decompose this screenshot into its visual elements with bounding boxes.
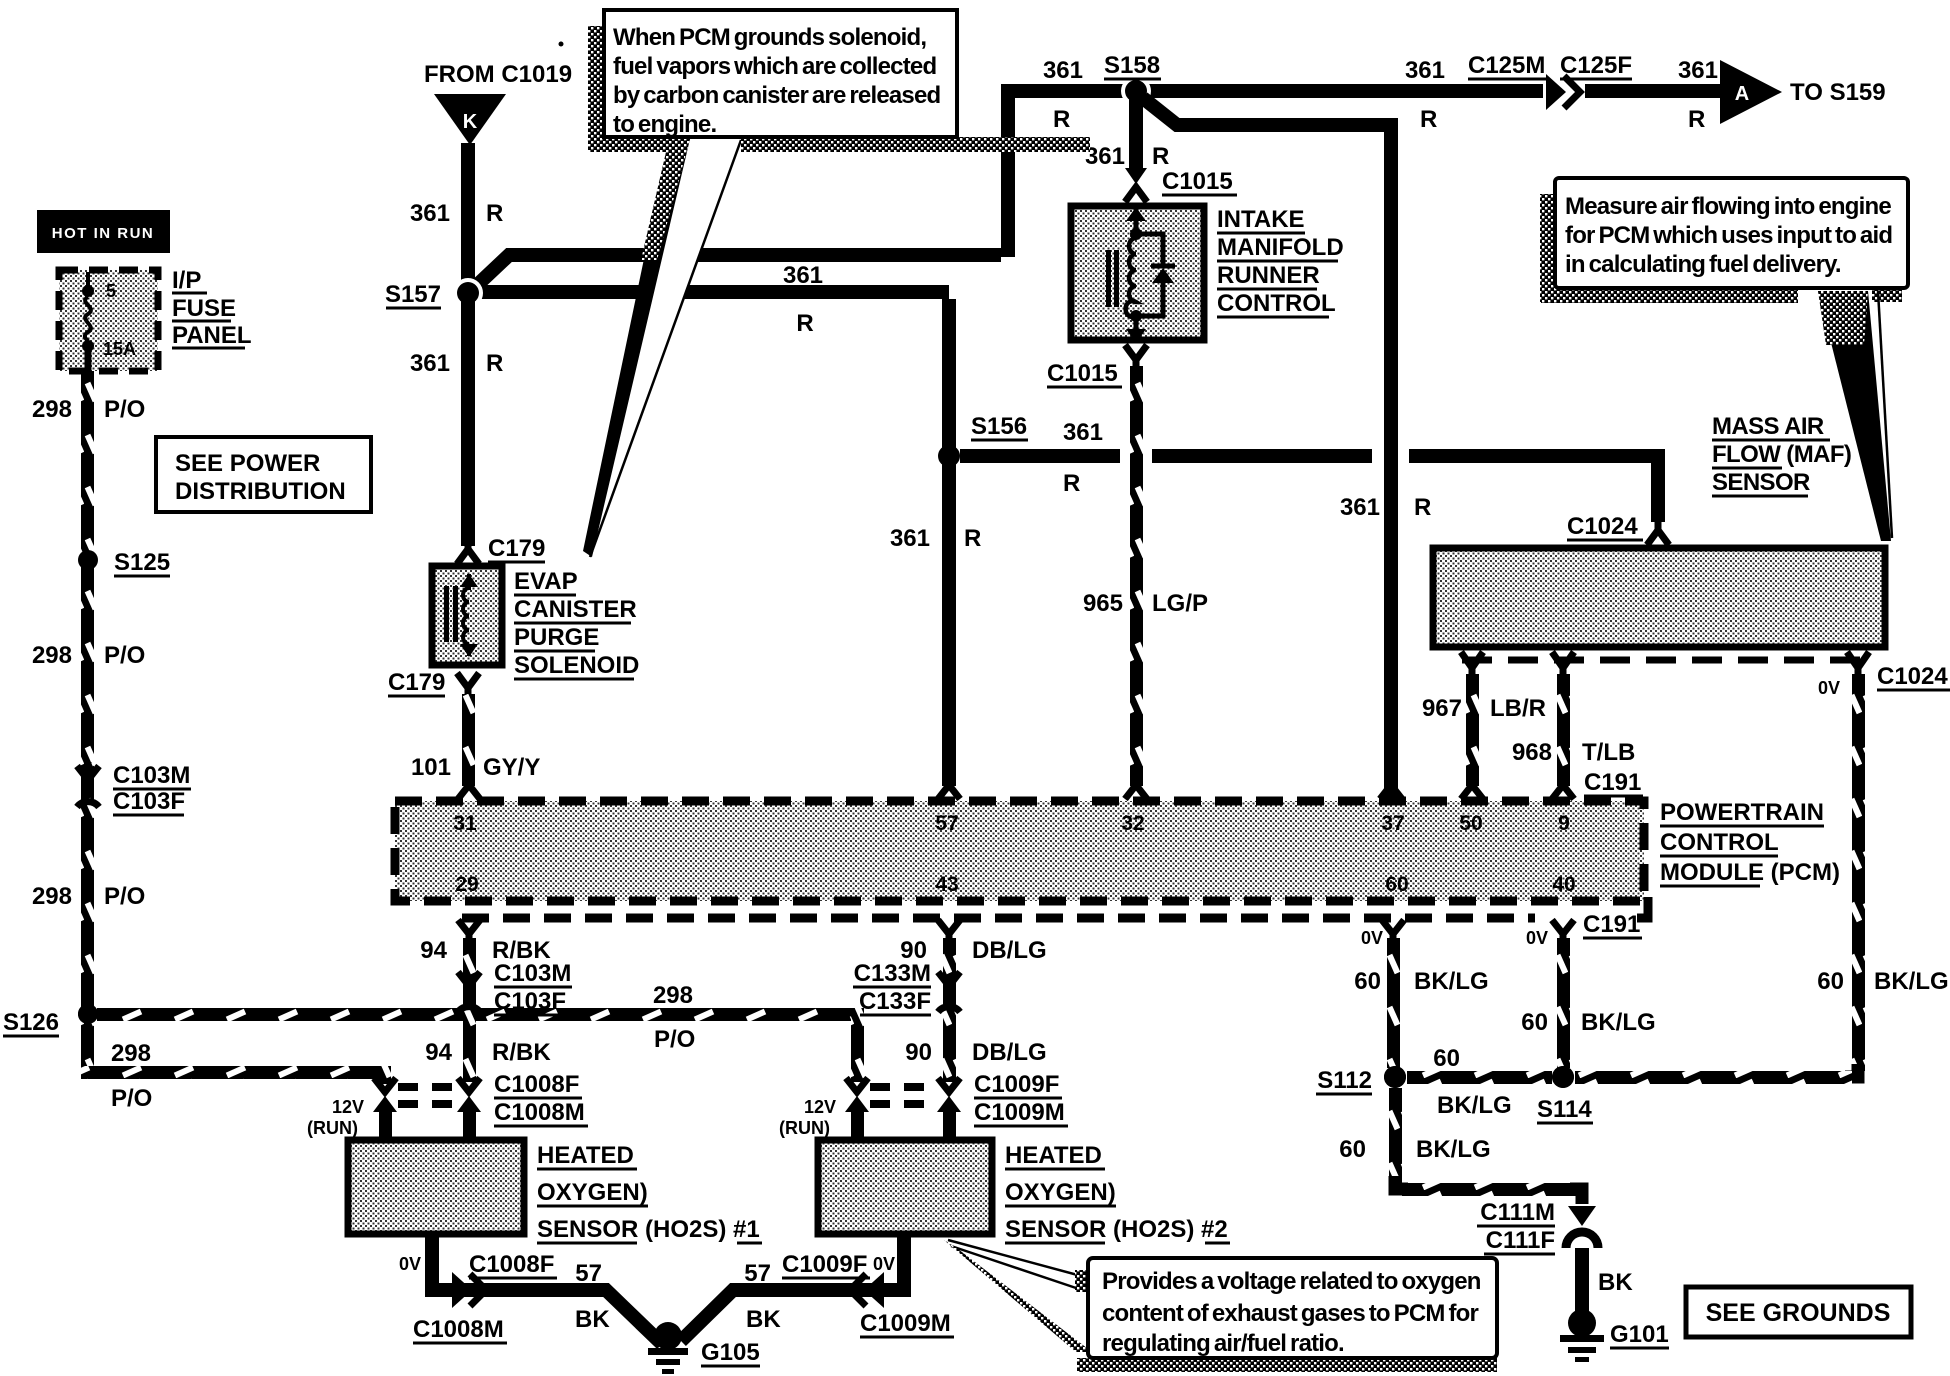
- svg-text:90: 90: [905, 1039, 932, 1066]
- svg-text:TO S159: TO S159: [1790, 79, 1886, 106]
- svg-text:40: 40: [1552, 873, 1575, 896]
- svg-text:R: R: [1420, 106, 1437, 133]
- node S112 dot redraw: [1384, 1066, 1406, 1088]
- label EVAP CANISTER PURGE SOLENOID: [514, 568, 639, 679]
- wire 101 GY/Y: [462, 694, 475, 786]
- svg-text:I/P: I/P: [172, 267, 201, 294]
- wire S114 to right riser: [1575, 1071, 1852, 1084]
- svg-text:C179: C179: [388, 669, 445, 696]
- svg-text:C1008M: C1008M: [494, 1099, 585, 1126]
- broken connector dashes HO2S2: [870, 1083, 936, 1091]
- svg-text:361: 361: [1085, 143, 1125, 170]
- svg-text:CONTROL: CONTROL: [1660, 829, 1779, 856]
- svg-text:361: 361: [1678, 57, 1718, 84]
- svg-text:361: 361: [1405, 57, 1445, 84]
- svg-text:BK/LG: BK/LG: [1414, 968, 1489, 995]
- ground G105: [648, 1322, 760, 1374]
- svg-text:A: A: [1735, 83, 1749, 105]
- svg-text:C103F: C103F: [113, 788, 185, 815]
- svg-text:C133F: C133F: [859, 988, 931, 1015]
- wire S156 horizontal 361 R to C1024: [960, 449, 1120, 463]
- connector fork at PCM pin 50: [1461, 785, 1483, 799]
- svg-text:60: 60: [1385, 873, 1408, 896]
- svg-text:R: R: [1414, 494, 1431, 521]
- svg-text:PURGE: PURGE: [514, 624, 599, 651]
- connector fork 0V below PCM pin 60: [1361, 920, 1404, 948]
- svg-text:32: 32: [1121, 812, 1144, 835]
- svg-text:15A: 15A: [103, 339, 136, 359]
- node S158: [1104, 52, 1161, 106]
- svg-text:C103M: C103M: [494, 960, 571, 987]
- svg-text:DB/LG: DB/LG: [972, 937, 1047, 964]
- svg-text:43: 43: [935, 873, 958, 896]
- svg-text:(RUN): (RUN): [307, 1118, 358, 1138]
- svg-text:967: 967: [1422, 695, 1462, 722]
- svg-text:60: 60: [1433, 1045, 1460, 1072]
- connector C1008F C1008M broken pair pin right: [457, 1071, 588, 1138]
- connector fork at PCM pin 9: [1552, 785, 1574, 799]
- svg-text:R/BK: R/BK: [492, 1039, 551, 1066]
- PCM bottom connector dashed line: [462, 897, 1648, 918]
- wire 60 BK/LG right tall: [1852, 674, 1865, 1071]
- svg-text:60: 60: [1817, 968, 1844, 995]
- svg-text:C1008F: C1008F: [469, 1251, 554, 1278]
- arrow K from C1019: [434, 94, 506, 145]
- node S114: [1537, 1066, 1593, 1123]
- svg-text:C191: C191: [1584, 769, 1641, 796]
- svg-text:S125: S125: [114, 549, 170, 576]
- svg-text:S126: S126: [3, 1009, 59, 1036]
- svg-text:PANEL: PANEL: [172, 322, 252, 349]
- wire 968 T/LB: [1557, 674, 1570, 786]
- svg-text:C1009M: C1009M: [974, 1099, 1065, 1126]
- callout: Measure air flowing: [1540, 178, 1908, 303]
- svg-text:for PCM which uses input to ai: for PCM which uses input to aid: [1565, 222, 1892, 249]
- connector C191 label upper: [1584, 769, 1643, 796]
- connector C1009M C1009F inline: [782, 1251, 954, 1337]
- node S157: [385, 278, 483, 308]
- svg-text:SOLENOID: SOLENOID: [514, 652, 639, 679]
- svg-text:regulating air/fuel ratio.: regulating air/fuel ratio.: [1102, 1330, 1344, 1357]
- wire S158 run to C125: [1008, 84, 1543, 98]
- SEE POWER DISTRIBUTION box: [156, 437, 371, 512]
- wire 94 R/BK: [463, 938, 476, 1082]
- svg-text:C103F: C103F: [494, 988, 566, 1015]
- svg-text:361: 361: [783, 262, 823, 289]
- wire HO2S2 0V to G105: [681, 1237, 911, 1341]
- svg-text:by carbon canister are release: by carbon canister are released: [613, 82, 941, 109]
- svg-text:RUNNER: RUNNER: [1217, 262, 1320, 289]
- svg-text:in calculating fuel delivery.: in calculating fuel delivery.: [1565, 251, 1841, 278]
- label MASS AIR FLOW (MAF) SENSOR: [1712, 413, 1851, 496]
- label HEATED OXYGEN SENSOR HO2S 1: [537, 1142, 762, 1243]
- svg-text:SEE POWER: SEE POWER: [175, 450, 320, 477]
- connector C103M C103F on 94 wire: [458, 960, 572, 1015]
- wire 361 R S157 to C179: [461, 299, 475, 546]
- svg-text:968: 968: [1512, 739, 1552, 766]
- svg-text:R: R: [796, 310, 813, 337]
- svg-text:60: 60: [1521, 1009, 1548, 1036]
- svg-text:POWERTRAIN: POWERTRAIN: [1660, 799, 1824, 826]
- svg-text:361: 361: [1043, 57, 1083, 84]
- connector C1024 top: [1567, 513, 1669, 545]
- svg-text:G101: G101: [1610, 1321, 1669, 1348]
- connector fork below PCM pin 43: [938, 920, 960, 940]
- svg-text:C1009F: C1009F: [782, 1251, 867, 1278]
- connector fork at PCM pin 31: [458, 785, 480, 799]
- svg-text:R: R: [1152, 143, 1169, 170]
- svg-text:C179: C179: [488, 535, 545, 562]
- label POWERTRAIN CONTROL MODULE (PCM): [1660, 799, 1840, 886]
- svg-text:298: 298: [32, 642, 72, 669]
- svg-text:57: 57: [575, 1260, 602, 1287]
- svg-text:R: R: [1053, 106, 1070, 133]
- svg-text:FUSE: FUSE: [172, 295, 236, 322]
- svg-text:94: 94: [425, 1039, 452, 1066]
- svg-text:94: 94: [420, 937, 447, 964]
- svg-text:57: 57: [935, 812, 958, 835]
- wire S157 lower run to S156: [478, 285, 949, 299]
- connector C1015 top: [1125, 168, 1237, 202]
- connector C133M C133F: [853, 960, 960, 1015]
- svg-text:50: 50: [1459, 812, 1482, 835]
- EVAP canister purge solenoid: [432, 566, 502, 665]
- svg-text:FROM C1019: FROM C1019: [424, 61, 572, 88]
- svg-text:BK: BK: [575, 1306, 610, 1333]
- node S114 dot redraw: [1552, 1066, 1574, 1088]
- svg-text:SEE GROUNDS: SEE GROUNDS: [1706, 1299, 1891, 1327]
- heated oxygen sensor HO2S 1 box: [348, 1140, 524, 1234]
- svg-text:R: R: [486, 350, 503, 377]
- svg-text:P/O: P/O: [104, 883, 145, 910]
- svg-text:298: 298: [111, 1040, 151, 1067]
- connector fork 0V below PCM pin 40 C191: [1526, 920, 1574, 948]
- svg-text:S112: S112: [1317, 1067, 1372, 1094]
- wire 298 P/O left vertical: [81, 371, 94, 1018]
- svg-text:BK/LG: BK/LG: [1581, 1009, 1656, 1036]
- node S125: [78, 549, 170, 576]
- node S126 dot redraw: [78, 1004, 98, 1024]
- svg-text:965: 965: [1083, 590, 1123, 617]
- svg-text:R: R: [1688, 106, 1705, 133]
- svg-text:101: 101: [411, 754, 451, 781]
- svg-text:R: R: [486, 200, 503, 227]
- svg-text:SENSOR (HO2S) #1: SENSOR (HO2S) #1: [537, 1216, 760, 1243]
- svg-text:G105: G105: [701, 1339, 760, 1366]
- svg-text:OXYGEN): OXYGEN): [537, 1179, 648, 1206]
- svg-text:P/O: P/O: [104, 642, 145, 669]
- svg-text:BK: BK: [746, 1306, 781, 1333]
- wire 965 LG/P: [1130, 366, 1143, 786]
- svg-text:57: 57: [744, 1260, 771, 1287]
- svg-text:0V: 0V: [873, 1254, 895, 1274]
- svg-text:29: 29: [455, 873, 478, 896]
- connector fork at PCM pin 37: [1380, 785, 1402, 799]
- stray dot: [559, 42, 564, 47]
- svg-text:C125M: C125M: [1468, 52, 1545, 79]
- connector fork 967 below MAF: [1461, 652, 1483, 676]
- wire S126 to HO2S2 12V: [97, 1008, 851, 1021]
- svg-text:BK/LG: BK/LG: [1416, 1136, 1491, 1163]
- wire HO2S1 0V to G105: [399, 1237, 662, 1344]
- connector C111M C111F: [1477, 1199, 1598, 1254]
- svg-text:C1009M: C1009M: [860, 1310, 951, 1337]
- svg-text:MODULE (PCM): MODULE (PCM): [1660, 859, 1840, 886]
- connector 12V RUN pin left HO2S2: [779, 1078, 869, 1138]
- svg-text:S158: S158: [1104, 52, 1160, 79]
- svg-text:HOT IN RUN: HOT IN RUN: [52, 225, 155, 242]
- powertrain control module PCM box: [395, 801, 1644, 901]
- svg-text:C111M: C111M: [1480, 1199, 1555, 1226]
- svg-text:EVAP: EVAP: [514, 568, 578, 595]
- svg-text:298: 298: [32, 396, 72, 423]
- svg-text:LG/P: LG/P: [1152, 590, 1208, 617]
- connector C103M C103F left: [77, 762, 191, 815]
- arrow A to S159: [1720, 60, 1782, 124]
- svg-text:SENSOR: SENSOR: [1712, 469, 1810, 496]
- wire S158 down-right to PCM pin 37: [1143, 98, 1384, 125]
- connector 12V RUN pin left HO2S1: [307, 1078, 397, 1138]
- wire BK to G101: [1575, 1248, 1633, 1320]
- svg-text:to engine.: to engine.: [613, 111, 716, 138]
- svg-text:BK: BK: [1598, 1269, 1633, 1296]
- svg-text:K: K: [463, 111, 478, 133]
- wire S158 down to C1015: [1129, 98, 1143, 170]
- svg-text:361: 361: [1063, 419, 1103, 446]
- svg-text:9: 9: [1558, 812, 1570, 835]
- svg-text:BK/LG: BK/LG: [1437, 1092, 1512, 1119]
- svg-text:0V: 0V: [399, 1254, 421, 1274]
- svg-text:DISTRIBUTION: DISTRIBUTION: [175, 478, 346, 505]
- connector C191 label lower: [1583, 911, 1642, 938]
- connector C179 bottom: [388, 669, 479, 696]
- fuse panel box I/P: [59, 270, 158, 371]
- callout pointer wedge to MAF: [1818, 291, 1892, 541]
- fuse F5 15A: [82, 272, 136, 371]
- connector C1024 dashed face below MAF: [1462, 657, 1862, 664]
- connector fork 0V C1024 right below MAF: [1818, 652, 1950, 698]
- svg-text:12V: 12V: [332, 1097, 364, 1117]
- svg-text:12V: 12V: [804, 1097, 836, 1117]
- svg-text:P/O: P/O: [104, 396, 145, 423]
- svg-text:361: 361: [1340, 494, 1380, 521]
- svg-text:INTAKE: INTAKE: [1217, 206, 1305, 233]
- svg-text:HEATED: HEATED: [1005, 1142, 1102, 1169]
- svg-text:298: 298: [653, 982, 693, 1009]
- wire S157 to S158 upper run: [474, 255, 1001, 288]
- callout: When PCM grounds solenoid (drawn over wires): [583, 10, 1090, 557]
- svg-text:FLOW (MAF): FLOW (MAF): [1712, 441, 1851, 468]
- svg-text:37: 37: [1381, 812, 1404, 835]
- node S126: [3, 1004, 98, 1036]
- svg-text:R: R: [964, 525, 981, 552]
- svg-text:P/O: P/O: [654, 1026, 695, 1053]
- svg-text:60: 60: [1339, 1136, 1366, 1163]
- wire S112 down to C111: [1339, 1088, 1582, 1204]
- wire 60 BK/LG to S114: [1557, 938, 1570, 1068]
- svg-text:T/LB: T/LB: [1582, 739, 1635, 766]
- connector C1015 bottom: [1047, 345, 1147, 387]
- svg-text:OXYGEN): OXYGEN): [1005, 1179, 1116, 1206]
- connector fork below PCM pin 29: [458, 920, 480, 940]
- wire S126 branch to HO2S1 12V: [81, 1020, 94, 1072]
- svg-text:361: 361: [890, 525, 930, 552]
- svg-text:C1009F: C1009F: [974, 1071, 1059, 1098]
- svg-text:C111F: C111F: [1486, 1227, 1555, 1254]
- wire 60 BK/LG to S112: [1387, 938, 1400, 1068]
- label INTAKE MANIFOLD RUNNER CONTROL: [1217, 206, 1344, 317]
- svg-text:S114: S114: [1537, 1096, 1592, 1123]
- svg-text:S156: S156: [971, 413, 1027, 440]
- svg-text:GY/Y: GY/Y: [483, 754, 540, 781]
- label I/P FUSE PANEL: [172, 267, 252, 349]
- svg-text:0V: 0V: [1361, 928, 1383, 948]
- svg-text:S157: S157: [385, 281, 441, 308]
- svg-text:31: 31: [453, 812, 477, 835]
- label HEATED OXYGEN SENSOR HO2S 2: [1005, 1142, 1230, 1243]
- svg-text:5: 5: [106, 281, 116, 301]
- svg-text:298: 298: [32, 883, 72, 910]
- callout: Provides a voltage: [944, 1240, 1497, 1372]
- connector fork 968 below MAF: [1552, 652, 1574, 676]
- connector C125M C125F: [1468, 52, 1632, 110]
- svg-text:C125F: C125F: [1560, 52, 1632, 79]
- svg-text:Measure air flowing into engin: Measure air flowing into engine: [1565, 193, 1891, 220]
- svg-text:CANISTER: CANISTER: [514, 596, 637, 623]
- SEE GROUNDS box: [1686, 1287, 1911, 1337]
- svg-text:content of exhaust gases to PC: content of exhaust gases to PCM for: [1102, 1300, 1479, 1327]
- connector C179 top: [457, 535, 545, 564]
- wire 361 R down to S157: [461, 143, 475, 284]
- svg-text:DB/LG: DB/LG: [972, 1039, 1047, 1066]
- svg-text:LB/R: LB/R: [1490, 695, 1546, 722]
- svg-text:0V: 0V: [1818, 678, 1840, 698]
- svg-text:C1015: C1015: [1162, 168, 1233, 195]
- svg-text:P/O: P/O: [111, 1085, 152, 1112]
- intake manifold runner control box: [1071, 206, 1204, 343]
- svg-text:MANIFOLD: MANIFOLD: [1217, 234, 1344, 261]
- svg-text:When PCM grounds solenoid,: When PCM grounds solenoid,: [613, 24, 926, 51]
- svg-text:BK/LG: BK/LG: [1874, 968, 1949, 995]
- wire 967 LB/R: [1466, 674, 1479, 786]
- svg-text:fuel vapors which are collecte: fuel vapors which are collected: [613, 53, 936, 80]
- svg-text:R: R: [1063, 470, 1080, 497]
- node S156: [938, 413, 1028, 467]
- svg-text:CONTROL: CONTROL: [1217, 290, 1336, 317]
- node S112: [1316, 1066, 1406, 1094]
- svg-text:0V: 0V: [1526, 928, 1548, 948]
- svg-text:HEATED: HEATED: [537, 1142, 634, 1169]
- svg-text:361: 361: [410, 350, 450, 377]
- svg-text:C133M: C133M: [854, 960, 931, 987]
- connector C1009F C1009M broken pair pin right: [937, 1071, 1068, 1138]
- wire S156 vertical to PCM pin 57: [942, 299, 956, 786]
- svg-text:C191: C191: [1583, 911, 1640, 938]
- wire S112 to S114 60 BK/LG: [1407, 1071, 1552, 1084]
- svg-text:C1024: C1024: [1877, 663, 1948, 690]
- connector fork at PCM pin 57: [938, 785, 960, 799]
- svg-text:C1015: C1015: [1047, 360, 1118, 387]
- svg-text:C103M: C103M: [113, 762, 190, 789]
- heated oxygen sensor HO2S 2 box: [818, 1140, 992, 1234]
- wire 90 DB/LG: [943, 938, 956, 1082]
- connector C1008F C1008M inline: [413, 1251, 557, 1343]
- svg-text:Provides a voltage related to: Provides a voltage related to oxygen: [1102, 1268, 1481, 1295]
- svg-text:(RUN): (RUN): [779, 1118, 830, 1138]
- label HOT IN RUN: [37, 210, 170, 253]
- ground G101: [1560, 1309, 1669, 1362]
- svg-text:C1008M: C1008M: [413, 1316, 504, 1343]
- connector fork at PCM pin 32: [1125, 785, 1147, 799]
- svg-text:MASS AIR: MASS AIR: [1712, 413, 1824, 440]
- svg-text:361: 361: [410, 200, 450, 227]
- svg-text:C1024: C1024: [1567, 513, 1638, 540]
- broken connector dashes HO2S1: [398, 1083, 456, 1091]
- svg-text:60: 60: [1354, 968, 1381, 995]
- svg-text:SENSOR (HO2S) #2: SENSOR (HO2S) #2: [1005, 1216, 1228, 1243]
- svg-text:C1008F: C1008F: [494, 1071, 579, 1098]
- MASS AIR FLOW sensor box C1024: [1433, 548, 1885, 647]
